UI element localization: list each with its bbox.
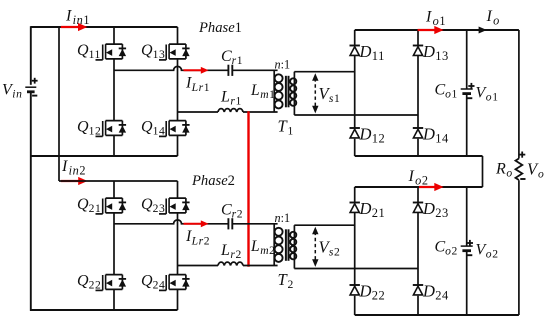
svg-text:13: 13	[435, 49, 449, 63]
current arrow Io1	[418, 26, 444, 34]
inductor Lr2	[218, 262, 243, 265]
wire: phase-2 bottom rail	[30, 309, 178, 311]
label n:1 of T1	[275, 58, 291, 72]
svg-text:o: o	[538, 168, 544, 181]
label T2	[278, 270, 294, 291]
wire: top input rail	[31, 26, 178, 28]
capacitor Co2 branch wire	[466, 187, 468, 315]
wire: rectifier-1 to rectifier-2 series link	[482, 156, 484, 187]
label Q22	[77, 273, 101, 292]
svg-text:L: L	[220, 89, 230, 106]
current arrow Iin1	[61, 23, 88, 31]
wire: left input rail (battery - down to bottom rail)	[30, 92, 32, 311]
label Q13	[141, 42, 165, 61]
label Cr2	[221, 202, 243, 221]
svg-text:21: 21	[372, 206, 386, 220]
svg-text:I: I	[425, 9, 432, 26]
label Co1	[435, 82, 458, 101]
label D24	[422, 282, 449, 303]
svg-text:13: 13	[153, 48, 166, 61]
svg-text:Lr1: Lr1	[191, 81, 211, 94]
svg-text:Phase2: Phase2	[191, 173, 235, 189]
current arrow Iin2	[61, 177, 88, 185]
svg-text:23: 23	[153, 202, 166, 215]
svg-text:L: L	[250, 238, 260, 255]
svg-text:I: I	[408, 168, 415, 185]
label Lr1	[220, 89, 242, 108]
minus sign of Vo	[520, 178, 525, 180]
current arrow ILr2	[184, 220, 209, 227]
label D22	[359, 282, 386, 303]
label Ro	[495, 161, 513, 180]
label Iin1	[65, 8, 90, 28]
wire: Cr1 to T1 primary	[232, 69, 277, 71]
label Cr1	[221, 48, 243, 67]
svg-text:n:1: n:1	[275, 58, 291, 72]
svg-text:o2: o2	[486, 248, 499, 261]
plus sign of Vo1	[468, 83, 474, 89]
label D12	[359, 125, 386, 146]
wire: phase-1 left leg segments	[113, 27, 115, 156]
battery Vin	[25, 87, 36, 92]
svg-text:11: 11	[89, 48, 101, 61]
wire: rectifier-2 top rail	[355, 186, 483, 188]
svg-text:C: C	[221, 202, 232, 219]
transformer T2	[274, 224, 296, 269]
svg-text:o: o	[506, 167, 512, 180]
svg-text:L: L	[220, 242, 230, 259]
label Lr2	[220, 242, 242, 261]
label D23	[422, 199, 449, 220]
resistor Ro	[516, 159, 523, 181]
label Vin	[2, 82, 23, 101]
transistor Q21	[96, 198, 127, 214]
svg-text:r1: r1	[230, 95, 242, 108]
plus sign of Vo	[519, 152, 525, 158]
voltage arrow Vs2	[312, 227, 318, 267]
wire: phase-2 left leg segments	[113, 181, 115, 310]
capacitor Cr1	[228, 65, 232, 76]
wire: Lr1 to T1 primary bottom	[243, 111, 278, 113]
capacitor Co2	[461, 246, 473, 251]
diode D12	[350, 128, 360, 138]
label Vs1	[319, 84, 341, 105]
svg-text:12: 12	[89, 125, 102, 138]
label D11	[359, 42, 385, 63]
inductor Lr1	[218, 109, 243, 112]
label Lm2	[250, 238, 276, 257]
label Q11	[77, 42, 101, 61]
transistor Q22	[96, 275, 127, 291]
svg-text:14: 14	[153, 125, 166, 138]
svg-text:o1: o1	[486, 91, 499, 104]
wire: T1 secondary top to rectifier 1	[294, 71, 354, 73]
svg-text:I: I	[486, 8, 493, 25]
diode D21	[350, 203, 360, 213]
svg-text:Phase1: Phase1	[198, 20, 242, 36]
svg-text:Lr2: Lr2	[191, 234, 211, 247]
wire: rectifier-1 top rail	[355, 29, 519, 31]
label D21	[359, 199, 386, 220]
svg-text:o: o	[493, 14, 500, 28]
svg-text:n:1: n:1	[275, 211, 291, 225]
svg-text:D: D	[359, 199, 372, 218]
svg-text:Q: Q	[141, 273, 153, 290]
diode D23	[413, 203, 423, 213]
svg-text:r2: r2	[230, 248, 242, 261]
current arrow Io2	[419, 183, 444, 191]
current arrow ILr1	[184, 67, 209, 74]
svg-text:I: I	[61, 158, 68, 175]
label Co2	[435, 239, 458, 258]
label Q24	[141, 273, 165, 292]
battery minus sign	[32, 95, 37, 97]
diode D22	[350, 285, 360, 295]
wire: Cr2 to T2 primary	[232, 223, 277, 225]
label Io1	[425, 9, 446, 29]
battery plus sign	[32, 78, 38, 84]
svg-text:Q: Q	[141, 196, 153, 213]
svg-text:L: L	[250, 82, 260, 99]
svg-text:I: I	[65, 8, 72, 25]
svg-text:Q: Q	[141, 42, 153, 59]
label Io	[486, 8, 500, 28]
label Q12	[77, 119, 101, 138]
svg-text:C: C	[221, 48, 232, 65]
svg-text:o1: o1	[433, 14, 447, 28]
svg-text:s1: s1	[329, 92, 341, 105]
svg-text:21: 21	[89, 202, 102, 215]
svg-text:22: 22	[372, 289, 386, 303]
svg-text:2: 2	[288, 278, 294, 291]
wire: T1 secondary bottom to rectifier 1	[294, 114, 418, 116]
label T1	[278, 117, 294, 138]
svg-text:m1: m1	[260, 88, 275, 101]
wire: phase-2 top rail	[59, 180, 178, 182]
label Q23	[141, 196, 165, 215]
capacitor Cr2	[228, 218, 232, 229]
svg-text:m2: m2	[260, 244, 275, 257]
transistor Q23	[159, 198, 190, 214]
wire: phase-2 node A to Cr2 (hops over right leg)	[114, 220, 228, 224]
svg-text:11: 11	[372, 49, 385, 63]
label Q14	[141, 119, 165, 138]
label Vo1	[476, 85, 499, 104]
wire: load branch bottom (Ro to rectifier-2 bottom rail)	[518, 180, 520, 315]
svg-text:12: 12	[372, 132, 386, 146]
svg-text:D: D	[422, 282, 435, 301]
svg-text:22: 22	[89, 279, 102, 292]
svg-text:D: D	[422, 125, 435, 144]
svg-text:14: 14	[435, 132, 449, 146]
label Vo	[527, 160, 544, 181]
label D14	[422, 125, 449, 146]
diode D24	[413, 285, 423, 295]
wire: phase-2 feed line from top rail down	[58, 27, 60, 181]
diode D13	[413, 46, 423, 56]
label Lm1	[250, 82, 276, 101]
wire: phase-1 right leg segments	[177, 27, 179, 156]
label ILr2	[185, 228, 210, 247]
plus sign of Vo2	[467, 240, 473, 246]
wire: phase-2 node B to Lr2	[178, 265, 219, 267]
label Io2	[408, 168, 429, 188]
label Q21	[77, 196, 101, 215]
transformer T1	[274, 70, 296, 115]
wire: phase-1 bottom rail	[30, 155, 178, 157]
capacitor Co1 branch wire	[466, 30, 468, 156]
minus sign of Vo1	[466, 97, 472, 99]
minus sign of Vo2	[466, 254, 472, 256]
wire: red link between phase-1 and phase-2 tank bottoms	[247, 111, 249, 267]
svg-text:in1: in1	[73, 13, 91, 27]
voltage arrow Vs1	[312, 73, 318, 113]
wire: load branch top (from rectifier-1 rail down to Ro)	[518, 30, 520, 159]
transistor Q11	[96, 44, 127, 60]
wire: T2 secondary bottom to rectifier 2	[294, 268, 418, 270]
svg-text:Q: Q	[141, 119, 153, 136]
svg-text:D: D	[359, 125, 372, 144]
capacitor Co1	[461, 89, 473, 94]
wire: left input rail (top part, to battery +)	[30, 26, 32, 85]
label Phase2	[191, 173, 235, 189]
svg-text:r2: r2	[232, 208, 244, 221]
wire: rectifier-1 left leg segments	[354, 30, 356, 156]
svg-text:in2: in2	[69, 164, 87, 178]
wire: rectifier-1 bottom rail	[355, 155, 483, 157]
svg-text:1: 1	[288, 125, 294, 138]
wire: Lr2 to T2 primary bottom	[243, 265, 278, 267]
svg-text:C: C	[435, 82, 446, 99]
wire: phase-1 node A to Cr1 (hops over right leg)	[114, 66, 228, 70]
svg-text:o1: o1	[445, 88, 458, 101]
transistor Q14	[159, 121, 190, 137]
label Vs2	[319, 238, 341, 259]
label ILr1	[185, 75, 210, 94]
svg-text:C: C	[435, 239, 446, 256]
svg-text:R: R	[495, 161, 506, 178]
wire: rectifier-1 right leg segments	[417, 30, 419, 156]
wire: rectifier-2 right leg segments	[417, 187, 419, 315]
label Phase1	[198, 20, 242, 36]
svg-text:o2: o2	[415, 174, 429, 188]
svg-text:Q: Q	[77, 196, 89, 213]
transistor Q12	[96, 121, 127, 137]
wire: rectifier-2 left leg segments	[354, 187, 356, 315]
svg-text:r1: r1	[232, 54, 244, 67]
svg-text:Q: Q	[77, 273, 89, 290]
svg-text:s2: s2	[329, 246, 341, 259]
wire: T2 secondary top to rectifier 2	[294, 224, 354, 226]
wire: phase-1 node B to Lr1	[178, 111, 219, 113]
current arrow Io (black)	[467, 27, 487, 34]
svg-text:24: 24	[153, 279, 166, 292]
label Iin2	[61, 158, 86, 178]
svg-text:D: D	[422, 42, 435, 61]
svg-text:D: D	[359, 42, 372, 61]
svg-text:Q: Q	[77, 119, 89, 136]
svg-text:24: 24	[435, 289, 449, 303]
diode D11	[350, 46, 360, 56]
transistor Q13	[159, 44, 190, 60]
svg-text:in: in	[12, 88, 22, 101]
svg-text:Q: Q	[77, 42, 89, 59]
diode D14	[413, 128, 423, 138]
label n:1 of T2	[275, 211, 291, 225]
label D13	[422, 42, 449, 63]
wire: rectifier-2 bottom rail	[355, 314, 519, 316]
svg-text:o2: o2	[445, 245, 458, 258]
svg-text:D: D	[422, 199, 435, 218]
svg-text:D: D	[359, 282, 372, 301]
label Vo2	[476, 242, 499, 261]
wire: phase-2 right leg segments	[177, 181, 179, 310]
svg-text:23: 23	[435, 206, 449, 220]
transistor Q24	[159, 275, 190, 291]
